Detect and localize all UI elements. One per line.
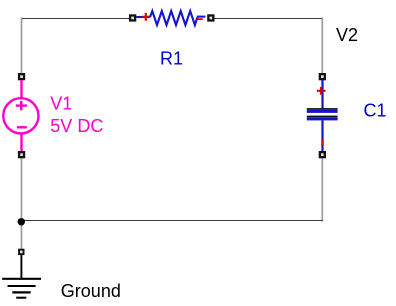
wire right upper — [321, 17, 323, 73]
ground terminal pin — [18, 249, 24, 255]
ground stem — [20, 255, 22, 278]
resistor R1 lead right — [197, 16, 206, 18]
source V1 terminal pin 1 — [18, 73, 25, 80]
capacitor C1 lead bottom — [321, 120, 323, 151]
capacitor C1 terminal pin 2 — [319, 151, 326, 158]
wire left lower — [21, 158, 23, 249]
capacitor C1 lead top — [321, 80, 323, 109]
source V1 lead bottom — [20, 134, 22, 151]
capacitor C1 polarity minus — [321, 140, 323, 146]
source V1 plus sign — [16, 101, 27, 110]
resistor R1 body zigzag — [150, 11, 197, 25]
svg-text:Ground: Ground — [61, 281, 121, 301]
capacitor C1 plate top — [307, 108, 338, 113]
ground bar 2 — [8, 285, 36, 287]
source V1 body circle — [3, 98, 38, 133]
capacitor C1 terminal pin 1 — [319, 73, 326, 80]
wire right lower — [321, 158, 323, 221]
svg-text:5V DC: 5V DC — [50, 116, 103, 136]
wire top-left segment — [21, 18, 130, 20]
ground bar 3 — [12, 291, 30, 293]
svg-text:V1: V1 — [50, 93, 72, 113]
ground bar 1 — [2, 278, 41, 280]
svg-text:V2: V2 — [336, 25, 358, 45]
capacitor C1 polarity plus — [317, 87, 326, 95]
wire top-right segment — [214, 18, 323, 20]
ground bar 4 — [16, 297, 26, 299]
resistor R1 lead left — [136, 16, 149, 18]
resistor R1 polarity minus — [197, 18, 203, 20]
resistor R1 terminal pin 1 — [129, 14, 136, 21]
source V1 minus sign — [17, 126, 27, 128]
resistor R1 polarity plus — [142, 13, 149, 21]
wire left upper — [21, 17, 23, 73]
wire bottom segment — [21, 220, 323, 222]
source V1 lead top — [20, 80, 22, 98]
svg-text:C1: C1 — [364, 101, 387, 121]
resistor R1 terminal pin 2 — [207, 14, 214, 21]
source V1 terminal pin 2 — [18, 151, 25, 158]
svg-text:R1: R1 — [160, 48, 183, 68]
capacitor C1 plate bottom — [307, 116, 338, 121]
junction node dot — [18, 218, 25, 225]
